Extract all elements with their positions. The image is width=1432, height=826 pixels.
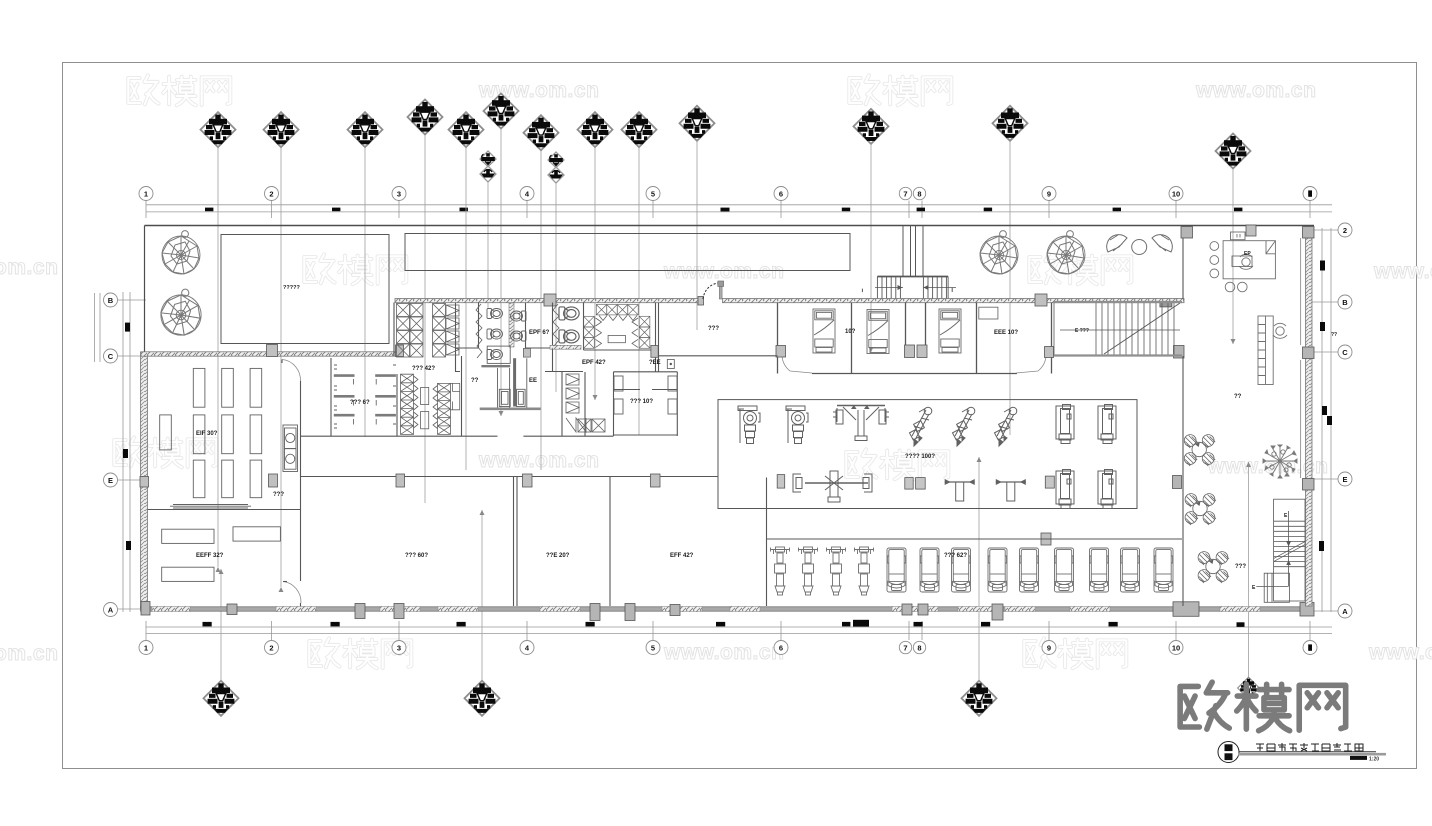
svg-text:3: 3 — [397, 189, 401, 198]
svg-text:?????: ????? — [283, 285, 300, 291]
svg-text:C: C — [108, 352, 114, 361]
svg-text:www.om.cn: www.om.cn — [663, 641, 784, 664]
svg-text:B: B — [108, 296, 114, 305]
bottom dimension lines — [146, 627, 1332, 634]
bubble labels — [108, 189, 1349, 652]
left/right letter bubbles — [104, 223, 1353, 618]
svg-text:5: 5 — [651, 189, 655, 198]
svg-text:10?: 10? — [845, 329, 856, 335]
svg-text:??? 42?: ??? 42? — [412, 366, 435, 372]
svg-text:??E 20?: ??E 20? — [546, 553, 570, 559]
small room couches (x 612-680 rooms) — [334, 365, 677, 428]
parking vans — [887, 548, 906, 592]
svg-text:9: 9 — [1047, 643, 1051, 652]
north building wall (hatched band) — [395, 299, 703, 303]
top dimension lines — [146, 205, 1332, 212]
svg-text:7: 7 — [903, 189, 907, 198]
big gray logo — [1180, 682, 1346, 731]
gym row 2 — [777, 475, 785, 489]
svg-text:A: A — [108, 605, 114, 614]
svg-text:2: 2 — [269, 189, 273, 198]
lounge reception — [1210, 232, 1276, 292]
toilets column mirrored — [511, 311, 527, 321]
bottom exterior wall — [141, 607, 1314, 611]
svg-text:www.om.cn: www.om.cn — [1195, 79, 1316, 102]
svg-text:7: 7 — [903, 643, 907, 652]
left exterior wall (hatched) — [141, 352, 148, 608]
svg-text:www.om.cn: www.om.cn — [0, 256, 58, 279]
black blocks on top dims — [205, 208, 1242, 212]
gym box — [718, 400, 1137, 509]
zigzag screens — [476, 304, 482, 358]
svg-text:??: ?? — [1331, 332, 1337, 338]
svg-text:??? 6?: ??? 6? — [350, 400, 370, 406]
row3 — [114, 437, 216, 467]
svg-text:?EE: ?EE — [649, 360, 661, 366]
svg-text:www.om.cn: www.om.cn — [478, 449, 599, 472]
svg-text:???? 100?: ???? 100? — [905, 454, 935, 460]
svg-text:1: 1 — [144, 643, 148, 652]
locker stall columns lower — [401, 374, 606, 434]
right exterior wall hatched — [1306, 238, 1313, 606]
massage beds — [813, 309, 835, 353]
svg-text:EE: EE — [529, 378, 537, 384]
gym row 1 — [738, 406, 760, 444]
svg-text:8: 8 — [917, 643, 921, 652]
svg-text:C: C — [1342, 348, 1348, 357]
svg-text:???: ??? — [273, 492, 284, 498]
svg-text:E ???: E ??? — [1075, 328, 1089, 334]
svg-text:10: 10 — [1172, 189, 1180, 198]
left/right dim ticks — [123, 261, 1332, 552]
svg-text:??: ?? — [1234, 394, 1242, 400]
svg-text:3: 3 — [397, 643, 401, 652]
svg-text:2: 2 — [269, 643, 273, 652]
svg-text:E: E — [1342, 475, 1347, 484]
svg-text:EIF 30?: EIF 30? — [196, 431, 218, 437]
svg-text:E: E — [108, 476, 113, 485]
bottom diamonds — [204, 681, 239, 716]
upper-left hatched wall — [141, 352, 400, 356]
big toilets — [559, 307, 579, 320]
small stacked markers — [480, 151, 496, 182]
middle rooms walls — [301, 303, 778, 607]
svg-text:EPF 42?: EPF 42? — [582, 360, 606, 366]
svg-text:??? 60?: ??? 60? — [405, 553, 428, 559]
left dim lines — [123, 292, 130, 612]
locker room (left) walls — [148, 360, 302, 607]
svg-text:8: 8 — [917, 189, 921, 198]
stair block top-right — [1054, 303, 1180, 355]
svg-text:EPF 6?: EPF 6? — [529, 330, 550, 336]
title text (CJK simulated) — [1256, 743, 1363, 751]
lounge tables — [1184, 435, 1215, 466]
toilets column 1 — [487, 309, 503, 319]
svg-text:???: ??? — [708, 326, 719, 332]
right dim lines — [1322, 228, 1331, 612]
locker stall columns upper — [397, 304, 460, 358]
svg-text:EFF 42?: EFF 42? — [670, 553, 694, 559]
svg-text:www.om.cn: www.om.cn — [0, 642, 58, 665]
black blocks on bottom dims — [203, 620, 1245, 627]
svg-text:??? 62?: ??? 62? — [944, 553, 967, 559]
terrace stairs — [862, 226, 956, 299]
lounge stairs bottom right — [1256, 499, 1305, 602]
terrace long planter — [405, 234, 850, 271]
leader lines — [218, 128, 1249, 681]
terrace top wall — [145, 225, 1315, 227]
trees terrace middle — [980, 231, 1018, 274]
hatched small wall in toilets — [509, 303, 514, 347]
svg-text:www.om.cn: www.om.cn — [1368, 641, 1432, 664]
lounge west wall — [1182, 238, 1184, 606]
svg-text:EEE 10?: EEE 10? — [994, 330, 1018, 336]
trees terrace left — [162, 231, 200, 274]
lounge tree — [1263, 445, 1297, 478]
terrace left wall — [144, 226, 146, 353]
EEFF32 benches — [162, 527, 281, 582]
svg-text:??: ?? — [471, 378, 479, 384]
svg-text:www.om.cn: www.om.cn — [663, 260, 784, 283]
svg-text:??? 10?: ??? 10? — [630, 399, 653, 405]
svg-text:1: 1 — [144, 189, 148, 198]
front entry door — [703, 281, 724, 299]
svg-text:A: A — [1342, 607, 1348, 616]
lounge bar counter — [1258, 316, 1273, 385]
cloak row horizontal — [584, 305, 650, 349]
svg-text:10: 10 — [1172, 643, 1180, 652]
svg-text:???: ??? — [1235, 564, 1246, 570]
title symbol circle — [1218, 742, 1239, 763]
top diamond row — [201, 112, 236, 147]
svg-text:www.om.cn: www.om.cn — [1373, 260, 1432, 283]
svg-text:5: 5 — [651, 643, 655, 652]
svg-text:1:20: 1:20 — [1369, 757, 1379, 763]
parking bikes — [771, 547, 790, 595]
terrace chairs right — [1107, 235, 1173, 255]
row1 — [128, 75, 230, 105]
terrace pool rect — [221, 235, 389, 344]
corridor posts — [140, 474, 1051, 545]
left shelf bars — [160, 368, 262, 508]
svg-text:2: 2 — [1343, 226, 1347, 235]
svg-text:6: 6 — [779, 189, 783, 198]
wall posts on north walls — [267, 225, 1257, 357]
laundry shaft block — [480, 346, 541, 409]
grid ticks top/bottom — [118, 201, 1338, 641]
washers — [283, 425, 298, 472]
parking top line — [767, 538, 1183, 540]
svg-text:B: B — [1342, 298, 1348, 307]
svg-text:9: 9 — [1047, 189, 1051, 198]
massage block walls — [778, 303, 1052, 374]
grid bubbles top — [139, 187, 1317, 201]
svg-text:EEFF 32?: EEFF 32? — [196, 553, 224, 559]
svg-text:EP: EP — [1244, 251, 1251, 257]
svg-text:6: 6 — [779, 643, 783, 652]
